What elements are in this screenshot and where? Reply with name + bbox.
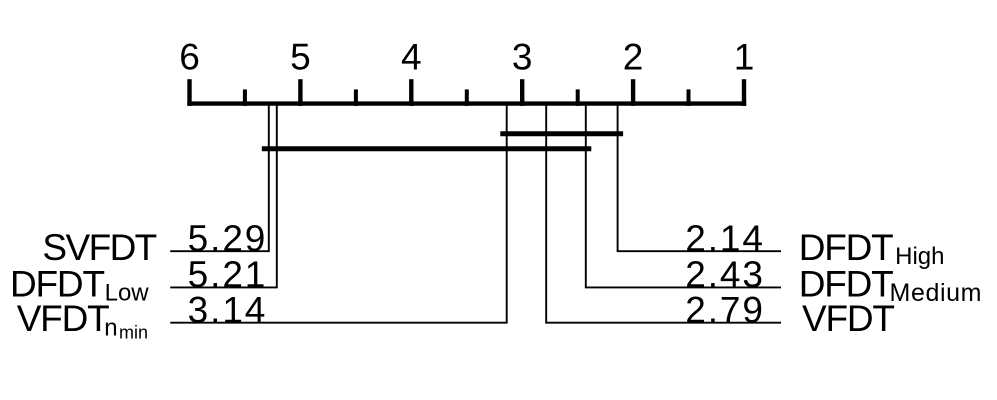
clique bar group 2 (SVFDT DFDT_Low VFDT_nmin VFDT DFDT_Medium) <box>262 146 592 151</box>
row line DFDT_Low <box>170 286 278 288</box>
svg-text:Low: Low <box>105 279 150 306</box>
minor tick 5.5 <box>243 89 247 106</box>
drop line DFDT_Medium <box>585 104 587 288</box>
major tick 5 <box>298 79 302 106</box>
major tick 4 <box>409 79 413 106</box>
major tick 2 <box>631 79 635 106</box>
row line DFDT_High <box>617 250 781 252</box>
row line SVFDT <box>170 250 270 252</box>
axis main line <box>187 101 746 105</box>
drop line SVFDT <box>268 104 270 252</box>
svg-text:VFDT: VFDT <box>802 298 894 339</box>
minor tick 1.5 <box>687 89 691 106</box>
svg-text:4: 4 <box>401 37 422 78</box>
svg-text:n: n <box>104 314 117 341</box>
row line DFDT_Medium <box>585 286 781 288</box>
svg-text:1: 1 <box>734 37 755 78</box>
drop line DFDT_Low <box>276 104 278 288</box>
svg-text:2.79: 2.79 <box>685 290 765 331</box>
svg-text:3.14: 3.14 <box>188 290 268 331</box>
drop line DFDT_High <box>617 104 619 252</box>
row line VFDT <box>545 322 781 324</box>
drop line VFDT <box>545 104 547 323</box>
svg-text:min: min <box>119 323 148 343</box>
minor tick 4.5 <box>354 89 358 106</box>
svg-text:3: 3 <box>512 37 533 78</box>
minor tick 2.5 <box>576 89 580 106</box>
svg-text:6: 6 <box>179 37 200 78</box>
svg-text:2: 2 <box>623 37 644 78</box>
svg-text:5: 5 <box>290 37 311 78</box>
major tick 1 <box>742 79 746 106</box>
svg-text:SVFDT: SVFDT <box>42 227 156 268</box>
major tick 6 <box>187 79 191 106</box>
drop line VFDT_nmin <box>506 104 508 323</box>
minor tick 3.5 <box>465 89 469 106</box>
svg-text:2.14: 2.14 <box>685 218 765 259</box>
row line VFDT_nmin <box>170 322 507 324</box>
clique bar group 1 (VFDT_nmin VFDT DFDT_Medium DFDT_High) <box>500 131 623 136</box>
svg-text:5.29: 5.29 <box>188 218 268 259</box>
major tick 3 <box>520 79 524 106</box>
svg-text:VFDT: VFDT <box>17 298 109 339</box>
